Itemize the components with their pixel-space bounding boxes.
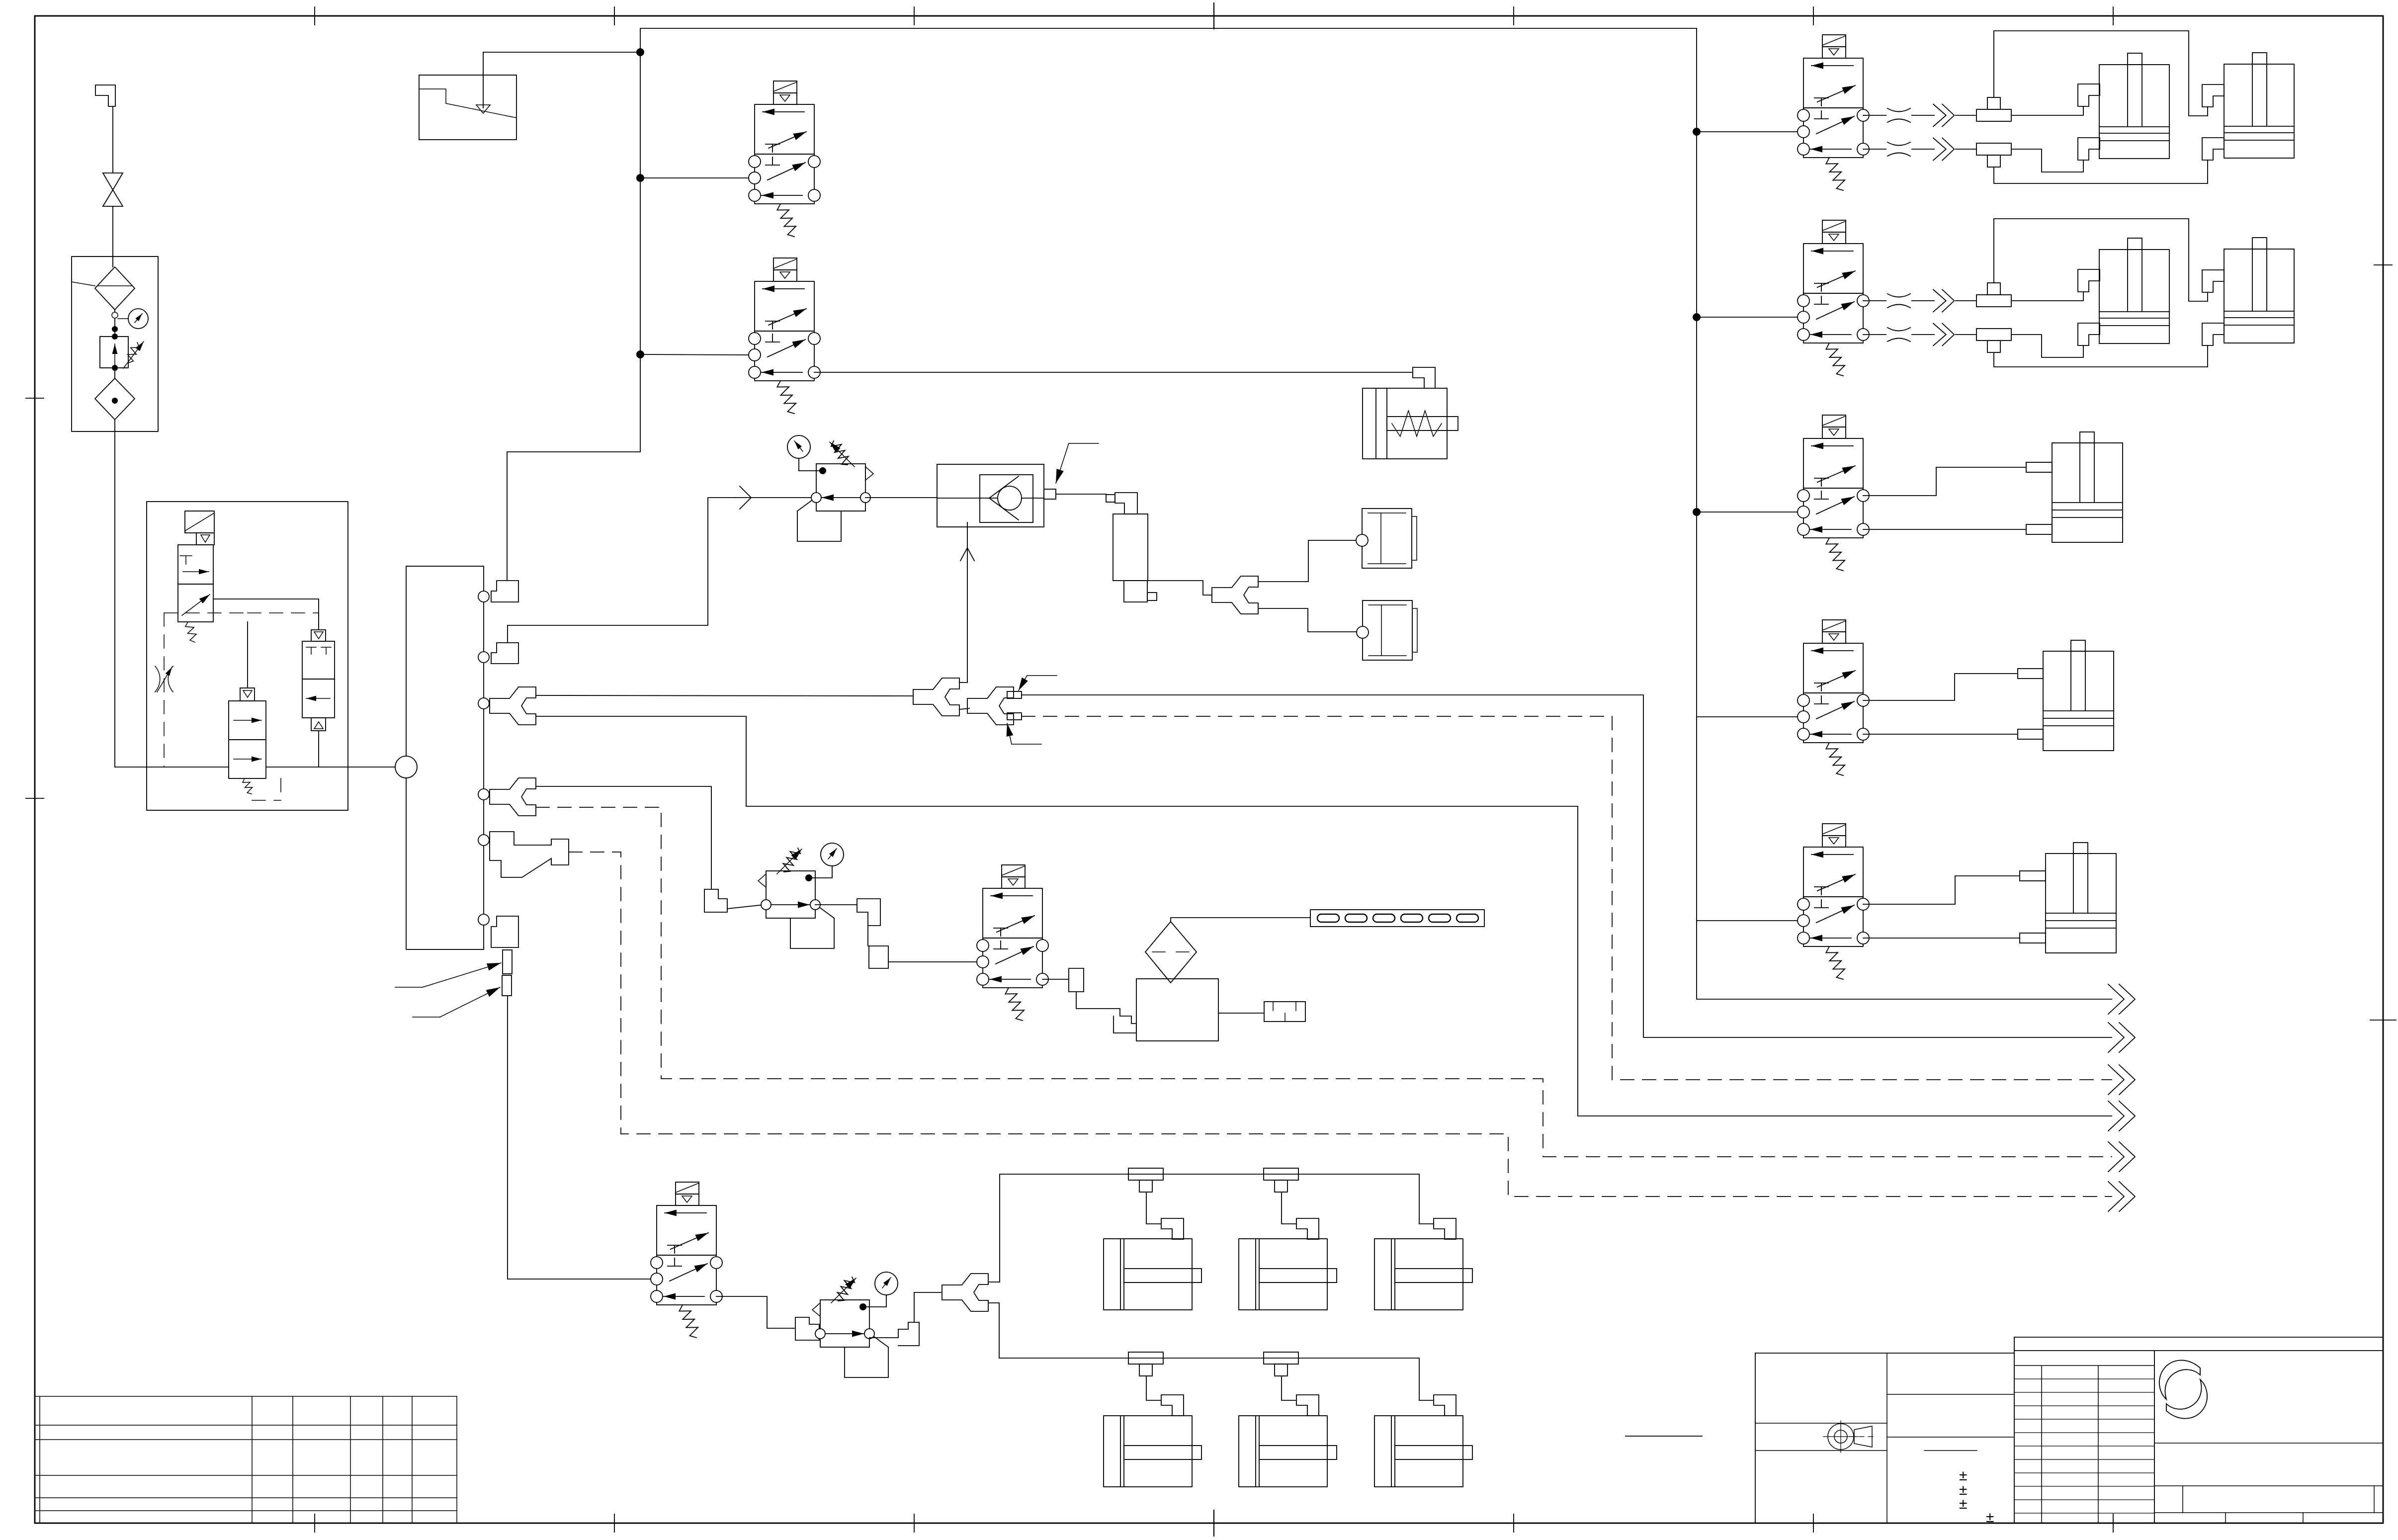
cylinder F3 (1374, 1239, 1472, 1310)
elbow port G1 (1161, 1395, 1184, 1416)
port 2 elbow fitting (491, 643, 518, 664)
quick coupling A2 (1933, 138, 1954, 161)
port fitting C lower (2026, 524, 2052, 534)
flow restrictor A2 (1887, 142, 1910, 156)
port fitting D lower (2018, 729, 2043, 739)
chevron out 3 (2108, 1065, 2135, 1095)
tee fitting B-bot (1976, 329, 2011, 352)
wire tee B-top to cyl B1 (2011, 292, 2083, 301)
single-acting spring cylinder (1363, 388, 1458, 459)
Y fitting 1 (913, 678, 959, 716)
first-angle projection symbol (1823, 1421, 1876, 1453)
soft-start pilot dashed line (164, 613, 165, 767)
soft-start check bypass valve SS3 (302, 630, 335, 731)
dashed drain at SS2 (252, 800, 281, 801)
inline arrow (740, 486, 751, 509)
junction node (1693, 313, 1701, 321)
wire valve E out top (1863, 876, 2020, 904)
soft-start pilot valve SS1 (178, 511, 214, 642)
port 5 fitting (490, 832, 569, 877)
wire tee to cylinder F1 (1146, 1192, 1161, 1224)
receiver tank with drain (419, 75, 516, 140)
cylinder G2 (1239, 1416, 1337, 1487)
pilot check valve block (937, 464, 1056, 527)
wire valve E out bottom (1863, 938, 2020, 939)
valve L1 3/2 solenoid (749, 81, 820, 237)
tee fitting B-top (1976, 283, 2011, 307)
wire FRL to soft-start main line (115, 767, 229, 768)
wire valve B out top (1863, 300, 1886, 301)
wire filter to regulator (114, 310, 115, 337)
stub Y2 lower (1007, 713, 1022, 720)
soft-start slow-fill valve SS2 (229, 688, 266, 794)
wire port 3 upper to Y1 (536, 695, 913, 696)
port fitting E lower (2020, 933, 2046, 943)
elbow port A1 lower (2078, 138, 2100, 160)
junction node (636, 174, 644, 182)
junction node (1693, 508, 1701, 516)
link Y1 lower to Y2 (959, 708, 969, 709)
valve B 3/2 solenoid (1798, 220, 1869, 376)
soft-start assembly enclosure (147, 502, 348, 810)
tee fitting row1-1 (1128, 1168, 1163, 1192)
wire valve MID to vacuum generator (1042, 979, 1069, 980)
left bus wire (507, 28, 640, 581)
wire tee A-bot under-route (1994, 160, 2208, 183)
chevron out 5 (2108, 1142, 2135, 1172)
manifold port 1 circle (478, 591, 489, 602)
dryer bottom elbow (1124, 581, 1147, 602)
FRL lubricator (95, 378, 135, 420)
wire SS3 to main line (318, 731, 319, 767)
revision table (2014, 1351, 2154, 1523)
compact cylinder 2 (1357, 600, 1417, 660)
wire SS1 to SS2 pilot (247, 622, 248, 688)
supply node circle (395, 756, 417, 778)
wire soft-start to node (348, 767, 395, 768)
wire valve BOT out to regulator R3 (716, 1296, 795, 1328)
wire port 2 to regulator R1 (508, 498, 735, 643)
wire bus to valve C (1697, 512, 1798, 513)
Y fitting B (942, 1274, 988, 1311)
cylinder G3 (1374, 1416, 1472, 1487)
pressure regulator R2 with gauge (758, 843, 844, 948)
wire inlet down (112, 106, 113, 173)
wire tee B-bot to cyl B1 lower (2011, 335, 2083, 357)
manifold port 3 circle (478, 698, 489, 709)
Y fitting 2 (967, 687, 1014, 725)
compact cylinder 1 (1356, 509, 1417, 568)
main line through SS2 (266, 767, 348, 768)
wire row1 end to cylinder F3 (1419, 1174, 1434, 1224)
svg-text:±: ± (1959, 1496, 1967, 1512)
wire tee A-bot to cyl A1 lower (2011, 149, 2083, 172)
wire SS1 to SS3 (213, 599, 319, 630)
wire bus to valve D (1697, 716, 1798, 717)
wire port 6 down to bottom valve (508, 996, 651, 1279)
wire R1 to check valve block (865, 497, 937, 498)
valve MID 3/2 solenoid (977, 865, 1048, 1021)
valve D 3/2 solenoid (1798, 620, 1869, 775)
port 4 Y fitting (490, 778, 536, 816)
elbow port A2 upper (2202, 85, 2224, 107)
wire dryer to Y-A (1148, 581, 1212, 595)
leader arrow to connector 2 (413, 1017, 440, 1018)
wire Y-B upper to top row (989, 1174, 1419, 1282)
wire port 3 lower long solid to chevron 4 (536, 716, 2112, 1116)
parts list table (35, 1396, 457, 1523)
wire R3 to Y-B (869, 1337, 898, 1338)
wire check block out (1056, 494, 1106, 495)
wire bus to valve B (1697, 317, 1798, 318)
top bus wire (640, 28, 1697, 29)
elbow port B2 upper (2202, 270, 2224, 292)
manifold port 6 circle (478, 914, 489, 925)
pilot flow control (155, 666, 173, 692)
chevron out 2 (2108, 1023, 2135, 1052)
elbow port F3 (1434, 1218, 1456, 1239)
cylinder F1 (1104, 1239, 1201, 1310)
elbow port A1 upper (2078, 84, 2100, 106)
filter diamond (1145, 922, 1197, 983)
wire valve C out bottom (1863, 529, 2026, 530)
manual shut-off valve (103, 173, 123, 190)
elbow port G2 (1296, 1395, 1319, 1416)
wire valve C out top (1863, 467, 2026, 496)
elbow to regulator R2 (704, 889, 727, 912)
elbow into dryer (1115, 493, 1137, 514)
compressed air inlet fitting (95, 85, 115, 106)
port 2 circle (478, 652, 489, 663)
cylinder D (2043, 640, 2114, 751)
manifold port 5 circle (478, 835, 489, 846)
stub Y2 upper (1007, 691, 1022, 698)
elbow port F1 (1161, 1218, 1184, 1239)
valve E 3/2 solenoid (1798, 824, 1869, 979)
chevron out 6 (2108, 1182, 2135, 1211)
port 6 elbow fitting (491, 916, 518, 947)
elbow port B1 upper (2078, 269, 2100, 292)
wire valve D out bottom (1863, 734, 2018, 735)
elbow port F2 (1296, 1218, 1319, 1239)
cylinder A1 (2099, 53, 2169, 159)
leader arrow at check block port (1069, 443, 1099, 444)
FRL air service unit enclosure (72, 257, 158, 431)
elbow port G3 (1434, 1395, 1456, 1416)
quick coupling B2 (1933, 324, 1954, 346)
frame zone ticks (314, 7, 315, 25)
wire tank lateral (483, 52, 640, 53)
wire port 5 dashed to chevron 6 (569, 852, 2112, 1197)
svg-text:±: ± (1986, 1509, 1994, 1526)
pilot wire from check block to Y1 (959, 522, 967, 683)
wire Y-B lower to bottom row (989, 1303, 1419, 1358)
port 1 elbow fitting (491, 581, 518, 602)
wire to suction rail (1171, 918, 1310, 922)
connector square (1106, 495, 1115, 502)
FRL gauge (118, 318, 128, 319)
quick coupling B1 (1933, 290, 1954, 312)
tee fitting A-bot (1976, 143, 2011, 167)
wire R2 to valve MID (815, 904, 857, 905)
wire Y-A lower to compact cylinder 2 (1258, 608, 1357, 632)
wire tee B-top crossover (1994, 219, 2208, 301)
flow restrictor B2 (1887, 328, 1910, 342)
wire valve A out bottom (1863, 149, 1886, 150)
cylinder A2 (2224, 53, 2294, 158)
valve A 3/2 solenoid (1798, 35, 1869, 190)
wire Y2 lower dashed to chevron 3 (1022, 716, 2112, 1080)
wire valve B out bottom (1863, 334, 1886, 335)
title block (1755, 1337, 2383, 1523)
leader arrow to connector 1 (395, 987, 423, 988)
inline connector 2 (502, 975, 512, 996)
wire bus to valve A (1697, 131, 1798, 132)
wire tee A-top crossover (1994, 31, 2208, 116)
port fitting E upper (2020, 871, 2046, 881)
tee fitting row2-1 (1128, 1352, 1163, 1376)
pilot arrow mark (960, 548, 974, 561)
wire port 4 lower dashed to chevron 5 (536, 807, 2112, 1157)
chevron out 4 (2108, 1101, 2135, 1131)
cylinder G1 (1104, 1416, 1201, 1487)
wire shutoff to FRL (112, 206, 113, 267)
wire valve D out top (1863, 674, 2018, 700)
cylinder B1 (2099, 238, 2169, 343)
quick coupling A1 (1933, 104, 1954, 127)
wire tee B-bot under-route (1994, 345, 2208, 367)
wire valve A out top (1863, 115, 1886, 116)
wire bus to valve L1 (640, 177, 749, 178)
junction node (636, 48, 644, 56)
flow restrictor A1 (1887, 108, 1910, 122)
wire bus to valve L2 (640, 354, 749, 355)
flow restrictor B1 (1887, 294, 1910, 308)
wire Y-A upper to compact cylinder 1 (1258, 540, 1356, 582)
wire regulator to lubricator (114, 368, 115, 378)
port fitting D upper (2018, 669, 2043, 679)
title block lower cells (2154, 1443, 2383, 1523)
wire vacuum out to connector (1218, 1013, 1264, 1014)
wire bus to valve E (1697, 920, 1798, 921)
elbow fitting at spring cylinder (1413, 367, 1435, 388)
tee fitting row2-2 (1264, 1352, 1298, 1376)
vacuum generator body (1136, 979, 1218, 1041)
elbow port A2 lower (2202, 138, 2224, 160)
junction node (1693, 128, 1701, 136)
pressure regulator R1 with gauge (787, 435, 873, 541)
wire port 4 upper to regulator R2 (536, 786, 711, 889)
cylinder E (2046, 843, 2116, 953)
port fitting C upper (2026, 462, 2052, 472)
exhaust connector block (1264, 1002, 1305, 1022)
valve BOT 3/2 solenoid (651, 1182, 722, 1338)
company logo S swirl (2159, 1360, 2207, 1418)
wire tee to cylinder G2 (1282, 1376, 1296, 1400)
tee fitting A-top (1976, 97, 2011, 121)
tee fitting row1-2 (1264, 1168, 1298, 1192)
right bus wire (1697, 28, 2112, 999)
cylinder C (2052, 432, 2123, 542)
chevron out 1 (2108, 984, 2135, 1014)
cylinder F2 (1239, 1239, 1337, 1310)
wire tee to cylinder G1 (1146, 1376, 1161, 1400)
suction cup rail (1310, 910, 1484, 927)
wire valve L2 to spring cylinder (814, 372, 1413, 373)
wire row2 end to cylinder G3 (1419, 1358, 1434, 1400)
valve L2 3/2 solenoid (749, 258, 820, 414)
wire tee to cylinder F2 (1282, 1192, 1296, 1224)
manifold loop rectangle (406, 566, 484, 949)
port 3 Y fitting (490, 687, 536, 725)
leader arrow at Y2 upper (1027, 675, 1057, 676)
Y fitting A (1212, 576, 1258, 614)
manifold port 4 circle (478, 789, 489, 800)
leader arrow at Y2 lower (1012, 744, 1041, 745)
elbow port B2 lower (2202, 323, 2224, 345)
junction node (636, 350, 644, 358)
inline connector 1 (503, 950, 512, 974)
elbow port B1 lower (2078, 323, 2100, 345)
FRL regulator (100, 337, 128, 368)
valve C 3/2 solenoid (1798, 415, 1869, 571)
elbow into vacuum generator (1113, 1016, 1136, 1033)
dryer body (1113, 514, 1148, 581)
pressure regulator R3 with gauge (812, 1272, 898, 1377)
wire Y2 upper solid to chevron 2 (1022, 695, 2112, 1037)
wire tee A-top to cyl A1 (2011, 106, 2083, 115)
reference line (1626, 1436, 1702, 1437)
cylinder B2 (2224, 238, 2294, 343)
wire FRL down to soft-start (114, 420, 115, 767)
FRL filter (95, 267, 135, 310)
